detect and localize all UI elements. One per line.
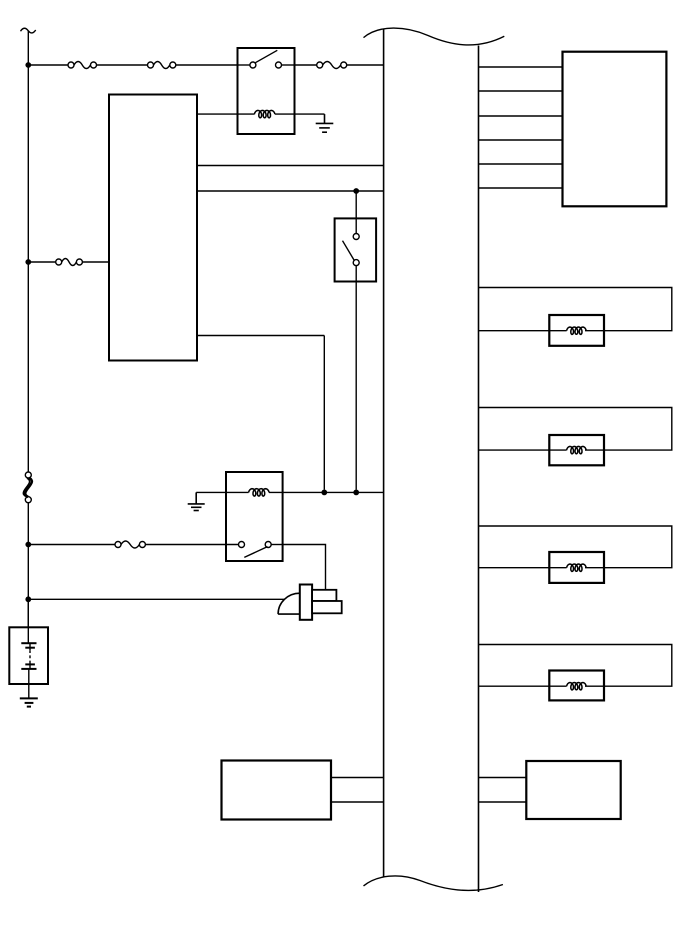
relay K2 switch contacts xyxy=(239,542,283,558)
relay K1 switch contacts xyxy=(238,50,295,68)
fuse F3 xyxy=(317,62,347,69)
control module M1 (top right box) xyxy=(563,52,667,207)
cigarette lighter: arc base xyxy=(278,613,300,615)
wire M3 to bus pin a xyxy=(479,777,527,779)
wire fuse to relay K2 xyxy=(145,544,238,546)
solenoid L3 box xyxy=(549,552,604,583)
wire ground to relay K2 coil xyxy=(196,491,248,493)
wire xyxy=(176,64,238,66)
wire control unit to relay K1 coil xyxy=(197,113,255,115)
solenoid L2 box xyxy=(549,435,604,465)
relay K2 coil xyxy=(249,489,270,496)
wire bus to M1 pin 4 xyxy=(479,139,563,141)
switch S1 box xyxy=(335,218,377,281)
junction dot xyxy=(25,259,31,265)
solenoid L1 coil xyxy=(549,327,604,334)
harness break wave bottom xyxy=(364,876,503,891)
solenoid L2 coil xyxy=(549,446,604,453)
relay K1 box xyxy=(238,48,295,134)
junction dot rail y=599.3 xyxy=(25,596,31,602)
relay K1 coil xyxy=(254,110,275,117)
wire coil to bus (node J line) xyxy=(269,491,384,493)
solenoid L1 box xyxy=(549,315,604,346)
wire control unit bottom branch xyxy=(197,335,324,337)
cigarette lighter: heater arc xyxy=(278,593,300,614)
wire bus to M1 pin 6 xyxy=(479,187,563,189)
ground G1 xyxy=(316,114,334,132)
battery BAT box xyxy=(9,627,48,684)
ground G3 (battery) xyxy=(20,698,38,706)
fuse F2 xyxy=(148,62,176,69)
junction dot (rail / top feed) xyxy=(25,62,31,68)
control unit U1 (large box) xyxy=(109,95,197,361)
junction dot rail y=544.5 xyxy=(25,542,31,548)
junction dot net B xyxy=(353,188,359,194)
wire to bus xyxy=(347,64,384,66)
wire rail to fuse F5 xyxy=(28,544,115,546)
fuse F5 xyxy=(115,541,145,548)
wire bus to M1 pin 1 xyxy=(479,66,563,68)
node B+ rail (left vertical supply rail) xyxy=(27,31,29,472)
fusible link FL (vertical, on rail) xyxy=(23,472,32,503)
motor M3 (bottom right box) xyxy=(526,761,620,819)
solenoid L3 coil xyxy=(549,564,604,571)
wire net B down to switch S1 xyxy=(355,191,357,233)
junction dot J1 xyxy=(321,490,327,496)
harness bus left edge xyxy=(383,30,385,878)
cigarette lighter: socket bar xyxy=(300,585,312,620)
cigarette lighter: housing top block xyxy=(312,590,336,601)
junction dot J2 xyxy=(353,490,359,496)
harness bus right edge xyxy=(478,46,480,893)
wire xyxy=(82,261,109,263)
wire bus to M1 pin 5 xyxy=(479,163,563,165)
fuse F4 xyxy=(56,259,83,266)
wire xyxy=(27,503,29,628)
solenoid L4 coil xyxy=(549,683,604,690)
wire to fuse F3 xyxy=(295,64,317,66)
wire break tilde at rail top xyxy=(21,28,36,33)
wire rail to lighter arc xyxy=(28,598,284,600)
wire M2 to bus pin a xyxy=(331,777,384,779)
battery internals xyxy=(21,599,36,698)
wire net A (control unit to bus) xyxy=(197,165,384,167)
wire down to node J xyxy=(323,336,325,490)
solenoid L2 loop wires xyxy=(479,408,672,451)
wire bus to M1 pin 2 xyxy=(479,90,563,92)
switch S1 contacts xyxy=(343,234,360,266)
ground G2 xyxy=(188,492,205,510)
solenoid L1 loop wires xyxy=(479,288,672,331)
wire xyxy=(97,64,148,66)
cigarette lighter: housing bottom block xyxy=(312,601,342,613)
wire rail to control unit y=262 xyxy=(28,261,55,263)
wire M2 to bus pin b xyxy=(331,801,384,803)
harness break wave top xyxy=(364,28,505,45)
wire coil to ground xyxy=(275,113,325,115)
solenoid L4 box xyxy=(549,671,604,701)
solenoid L3 loop wires xyxy=(479,526,672,568)
fuse F1 xyxy=(68,62,97,69)
wire bus to M1 pin 3 xyxy=(479,115,563,117)
motor M2 (bottom left box) xyxy=(222,761,332,820)
wire M3 to bus pin b xyxy=(479,801,527,803)
wire switch S1 to node J xyxy=(355,266,357,490)
relay K2 box xyxy=(226,472,283,561)
solenoid L4 loop wires xyxy=(479,645,672,687)
wire relay K2 to lighter xyxy=(283,545,326,590)
wire top feed y=65 xyxy=(28,64,68,66)
wire net B (control unit to bus) xyxy=(197,190,384,192)
